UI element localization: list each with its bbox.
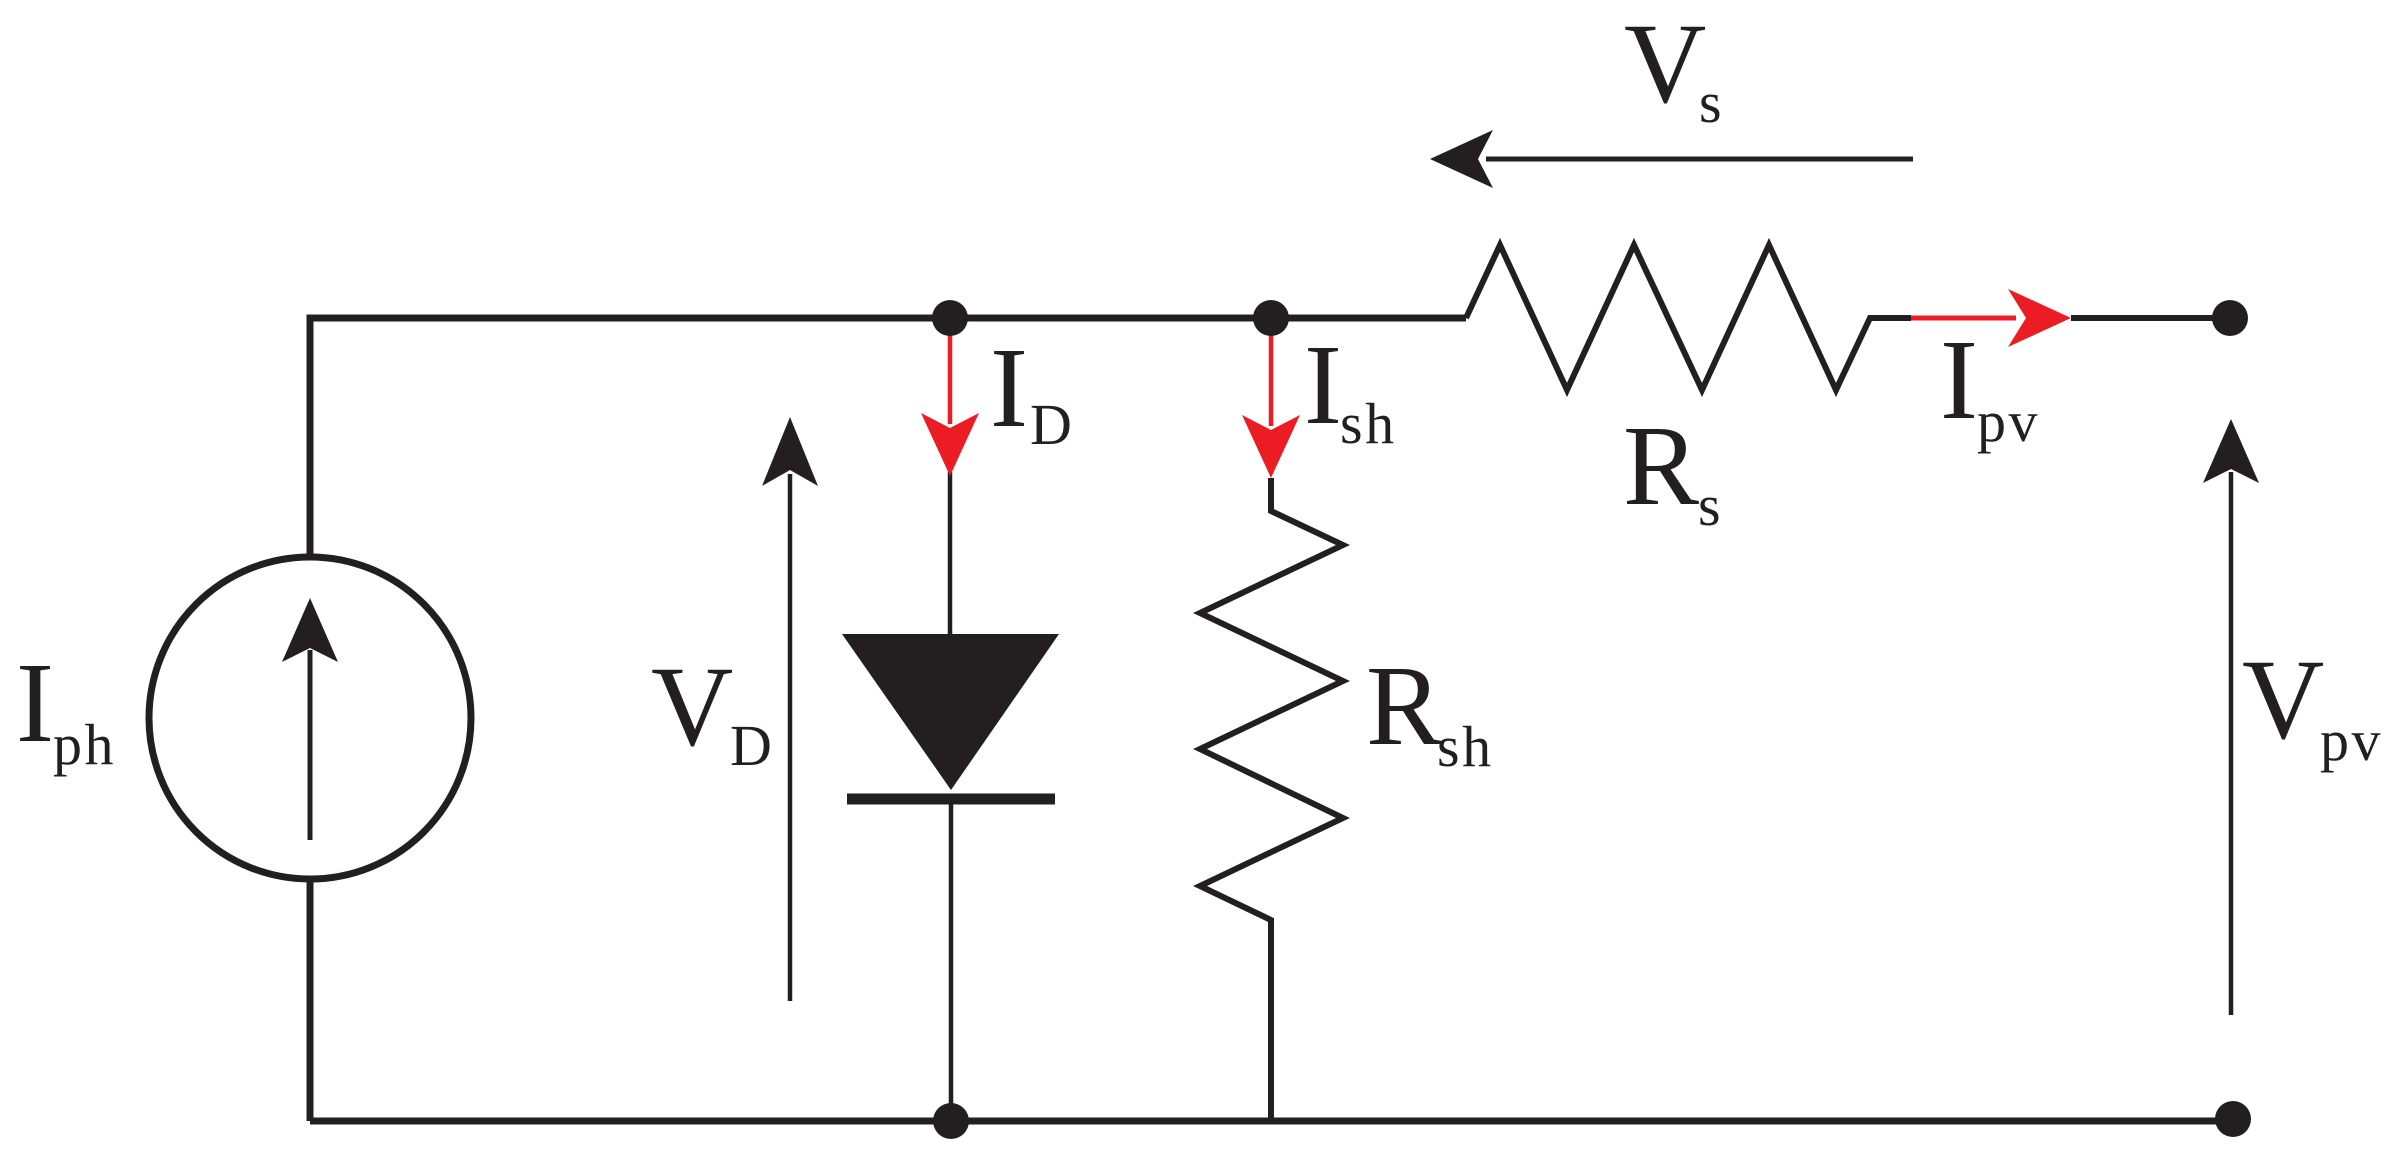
- svg-text:pv: pv: [1977, 389, 2040, 454]
- svg-text:V: V: [1624, 0, 1706, 127]
- current source arrow (up): [282, 598, 338, 840]
- wire: bottom rail: [310, 1118, 2233, 1125]
- diode D triangle: [842, 634, 1059, 790]
- label V_pv (output voltage): [2242, 636, 2383, 773]
- label R_sh (shunt resistance): [1366, 642, 1494, 779]
- label I_pv (output current): [1940, 316, 2040, 454]
- svg-text:V: V: [2242, 636, 2324, 763]
- wire: diode anode lead (thin): [948, 472, 953, 634]
- svg-text:I: I: [990, 324, 1028, 451]
- red arrow I_pv (right): [1911, 289, 2071, 347]
- label I_sh (shunt current): [1304, 321, 1397, 456]
- wire: top rail from top-left corner to Rs start: [310, 318, 1466, 1121]
- red arrow I_D (down): [921, 330, 979, 476]
- diode cathode bar: [847, 794, 1055, 805]
- node: bottom-right output terminal: [2215, 1101, 2251, 1137]
- svg-text:ph: ph: [53, 712, 116, 777]
- svg-text:I: I: [1940, 316, 1978, 443]
- svg-text:D: D: [730, 713, 772, 778]
- svg-text:I: I: [16, 639, 54, 766]
- svg-text:s: s: [1698, 473, 1721, 538]
- arrow V_s (left) at top: [1430, 130, 1913, 188]
- label V_s (series resistor voltage): [1624, 0, 1722, 135]
- current source I_ph circle: [149, 557, 471, 879]
- label R_s (series resistance): [1623, 402, 1721, 538]
- svg-text:sh: sh: [1340, 391, 1397, 456]
- svg-text:s: s: [1699, 70, 1722, 135]
- svg-text:R: R: [1623, 402, 1699, 529]
- arrow V_pv (up) on right: [2203, 419, 2259, 1015]
- wire: top rail right of I_pv arrow: [2071, 315, 2230, 321]
- resistor R_sh (vertical zigzag): [1200, 478, 1343, 1121]
- wire: diode cathode lead (thin): [949, 799, 954, 1121]
- svg-text:D: D: [1030, 392, 1072, 457]
- resistor R_s (horizontal zigzag): [1466, 245, 1911, 390]
- label V_D (diode voltage): [651, 643, 772, 778]
- label I_ph: [16, 639, 116, 777]
- node: bottom junction at diode: [933, 1103, 969, 1139]
- red arrow I_sh (down): [1242, 330, 1300, 478]
- svg-text:R: R: [1366, 642, 1442, 769]
- svg-text:pv: pv: [2320, 708, 2383, 773]
- node: top junction at R_sh: [1253, 300, 1289, 336]
- svg-text:V: V: [651, 643, 733, 770]
- label I_D (diode current): [990, 324, 1072, 457]
- node: top junction at diode: [932, 300, 968, 336]
- svg-text:sh: sh: [1437, 714, 1494, 779]
- svg-text:I: I: [1304, 321, 1342, 448]
- arrow V_D (up): [762, 417, 818, 1001]
- node: top-right output terminal: [2212, 300, 2248, 336]
